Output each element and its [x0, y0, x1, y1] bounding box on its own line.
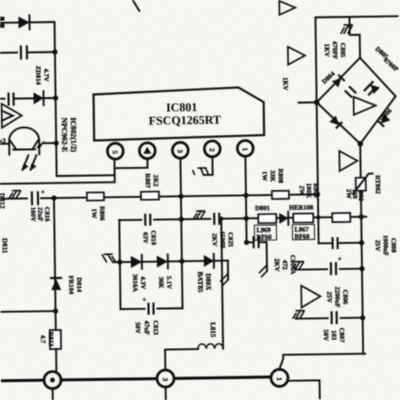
capacitor [5, 93, 13, 106]
wire left of bridge vertex [299, 101, 317, 103]
R808 label [261, 169, 284, 185]
thermistor RT802 [359, 144, 361, 178]
ground on wire [193, 211, 205, 219]
connector triangle top 1 [279, 1, 295, 15]
node dots on bus [178, 194, 183, 199]
wire terminal3 up [279, 354, 365, 369]
right box top and left edge [315, 16, 400, 217]
ground on bus [9, 191, 21, 199]
ground pin2 [193, 168, 209, 175]
resistor R806 [87, 192, 104, 200]
ground under top edge [341, 25, 353, 34]
C806 label [325, 286, 348, 307]
pin4 jog wire [114, 159, 147, 168]
ground [259, 265, 267, 277]
corner stub component top-left [0, 17, 5, 28]
node dot [179, 217, 184, 222]
capacitor C815 [18, 45, 27, 59]
middle box bottom with C813 [121, 307, 183, 310]
zener ZD814 label [34, 66, 49, 86]
diode D805 lower-left [330, 116, 343, 129]
light arrows [22, 155, 36, 169]
wire to terminal2 [165, 349, 198, 369]
node dot [244, 216, 249, 221]
C816 label [29, 207, 50, 223]
IC801 box [93, 87, 264, 140]
right rail [361, 217, 363, 354]
inductor L815 [198, 322, 224, 349]
resistor R808 [272, 191, 289, 199]
wire C807A row [295, 268, 362, 271]
C807 label [322, 328, 345, 344]
connector triangle top 2 [288, 47, 305, 65]
diode D803 upper-left [332, 75, 345, 88]
capacitor C825 [211, 213, 222, 225]
pin 5 [107, 143, 123, 159]
node dot [359, 214, 364, 219]
middle box left edge [119, 220, 120, 309]
connector triangle in bridge [354, 97, 376, 115]
wire left at y309 [2, 310, 56, 313]
diode D801 [279, 212, 288, 225]
pin 3 [172, 142, 188, 158]
bridge rectifier diamond [313, 57, 396, 147]
diode D804 upper-right [367, 81, 380, 94]
capacitor C816 [28, 188, 45, 205]
pin1 drain rail [245, 157, 246, 242]
zener wire y261 [113, 261, 228, 263]
terminal 1 [44, 371, 61, 400]
node dot [52, 49, 57, 54]
bus upper [0, 161, 115, 184]
wire C807 row [296, 317, 363, 320]
terminal 3 [271, 369, 288, 386]
pin 1 [237, 140, 253, 156]
bottom bus [3, 377, 280, 381]
pin 2 [204, 141, 220, 157]
capacitor C810 [142, 214, 153, 226]
resistor R807 [141, 192, 159, 200]
node dot [54, 140, 59, 145]
node dot [51, 195, 56, 200]
main bus with resistors [0, 194, 318, 198]
capacitor C807 [329, 311, 340, 324]
pin2 ground wire [203, 158, 212, 175]
rail to L815 [221, 219, 223, 345]
diode D810 [18, 15, 29, 29]
stray mark top [133, 1, 139, 11]
connector triangle bottom [301, 285, 320, 307]
pin 4 [139, 143, 155, 159]
resistor R813 [50, 330, 61, 349]
R813 rail [54, 198, 56, 330]
bead L809 [258, 214, 276, 223]
left vertical rail [55, 22, 57, 176]
cap C807A off pin1 rail [247, 242, 267, 271]
wire corner to ground [227, 261, 229, 280]
terminal 2 [157, 370, 174, 400]
wire y219 [119, 217, 366, 220]
bead L807 [293, 213, 313, 222]
zener diode ZD813 [33, 91, 43, 105]
connector triangle left of RT802 [339, 151, 357, 171]
error amp triangle IC802 LED side [2, 103, 22, 127]
zener ZD816 [157, 254, 168, 268]
IC802 label [60, 117, 78, 152]
node dot [53, 95, 58, 100]
C808 label [374, 235, 397, 256]
wire with capacitor C815 [0, 51, 55, 54]
diode D806 lower-right [378, 114, 391, 127]
wire y245 with cap C803 [318, 217, 361, 244]
C805 label [323, 41, 346, 59]
capacitor C806 [328, 255, 342, 275]
resistor R802 [332, 213, 350, 222]
diode D814 in rail [50, 278, 62, 290]
ground left [102, 254, 116, 262]
zener ZD816A [131, 255, 142, 269]
inner cap marks [345, 86, 356, 97]
pin3 rail [180, 158, 182, 308]
diode BAT85 [204, 254, 214, 268]
wire with cap and diode [0, 97, 56, 100]
optocoupler IC802 phototransistor [0, 127, 57, 172]
wire rail corner to pin5 [57, 174, 115, 177]
wire top-left horizontal [0, 21, 55, 24]
wire right of terminal3 [289, 380, 320, 398]
R809 label [298, 183, 319, 199]
